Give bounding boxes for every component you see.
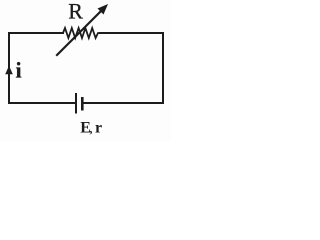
svg-text:R: R [68, 0, 83, 24]
svg-text:r: r [95, 120, 102, 137]
wire top-left segment [9, 33, 63, 103]
current arrowhead i on left wire [5, 66, 13, 75]
variable resistor arrowhead [98, 4, 109, 15]
svg-text:,: , [90, 122, 93, 136]
wire bottom-right segment [83, 102, 163, 104]
variable resistor arrow shaft [57, 10, 102, 55]
svg-text:i: i [16, 57, 22, 82]
battery E long plate [75, 93, 77, 114]
wire top-right segment [100, 33, 163, 103]
wire bottom-left segment [9, 102, 75, 104]
resistor R zigzag [63, 28, 100, 38]
battery E short thick plate [81, 97, 84, 111]
